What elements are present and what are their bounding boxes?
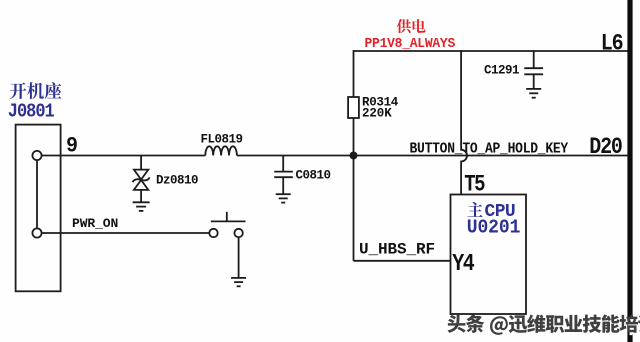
ground (Dz0810) — [133, 202, 150, 211]
wire: PP1V8_ALWAYS rail to L6 edge — [354, 50, 628, 52]
wire: junction A to D20 edge (net BUTTON_TO_AP_HOLD_KEY) — [354, 155, 628, 157]
capacitor C0810 — [274, 172, 293, 194]
wire: rail to CPU pin T5 (hops over button wire) — [461, 50, 467, 194]
CPU U0201 body — [451, 195, 527, 315]
CPU label 主 — [468, 202, 483, 217]
wire: pin9 to FL0819 — [42, 155, 206, 157]
ground (C1291) — [526, 89, 541, 98]
connector pin 9 circle — [32, 151, 41, 160]
svg-text:C0810: C0810 — [296, 169, 331, 183]
svg-text:U_HBS_RF: U_HBS_RF — [359, 240, 435, 258]
inductor FL0819 — [205, 146, 237, 155]
svg-text:C1291: C1291 — [484, 64, 519, 78]
wire: PWR_ON net — [42, 232, 210, 234]
watermark 头条@迅维职业技能培训 — [448, 314, 640, 337]
wire: junction A down (net U_HBS_RF) — [353, 156, 355, 261]
resistor R0314 — [348, 97, 359, 118]
wire: switch to ground — [238, 237, 240, 277]
svg-text:FL0819: FL0819 — [201, 133, 243, 147]
svg-text:Y4: Y4 — [452, 251, 474, 278]
svg-text:J0801: J0801 — [8, 101, 55, 122]
svg-text:BUTTON_TO_AP_HOLD_KEY: BUTTON_TO_AP_HOLD_KEY — [410, 142, 569, 158]
connector J0801 body — [16, 125, 61, 292]
svg-text:Dz0810: Dz0810 — [156, 173, 198, 187]
ground (switch) — [231, 278, 246, 286]
svg-text:PP1V8_ALWAYS: PP1V8_ALWAYS — [365, 36, 456, 52]
connector internal link wire — [36, 160, 38, 229]
svg-text:D20: D20 — [589, 135, 622, 161]
wire: FL0819 to junction A — [237, 155, 354, 157]
wire: node to Dz0810 — [140, 156, 142, 170]
capacitor C1291 — [524, 68, 543, 88]
zener diode Dz0810 (bidirectional TVS) — [133, 170, 150, 202]
wire: node to C0810 — [282, 156, 284, 172]
connector label 开机座 — [10, 82, 62, 99]
svg-text:PWR_ON: PWR_ON — [72, 216, 118, 231]
supply label 供电 — [397, 19, 426, 33]
wire: U_HBS_RF to CPU pin Y4 — [354, 260, 451, 262]
svg-text:220K: 220K — [362, 107, 392, 121]
ground (C0810) — [276, 194, 291, 202]
svg-text:U0201: U0201 — [467, 216, 520, 239]
wire: R0314 to junction A — [353, 118, 355, 156]
connector pin PWR_ON circle — [32, 228, 41, 237]
wire: rail to R0314 — [353, 50, 355, 97]
svg-text:L6: L6 — [601, 31, 623, 57]
pushbutton switch SW — [209, 212, 245, 237]
page edge bus bar — [627, 0, 632, 342]
wire: rail to C1291 — [533, 51, 535, 68]
junction node A (R0314/button wire) — [350, 152, 358, 160]
